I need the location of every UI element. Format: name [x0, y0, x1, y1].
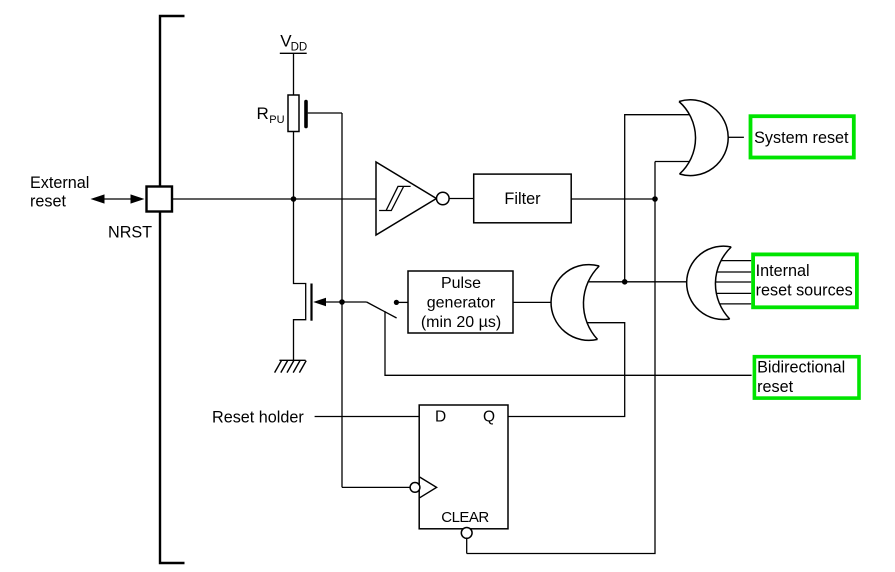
schmitt trigger U1 — [376, 162, 449, 235]
wire pulse or output to pulse generator — [513, 301, 551, 303]
label External reset — [30, 174, 89, 210]
svg-text:NRST: NRST — [108, 224, 152, 242]
wire NRST main horizontal — [172, 198, 376, 200]
or-gate U4 pulse — [551, 265, 599, 341]
junction NRST-RPU — [291, 196, 297, 202]
wire pivot to pulse generator — [396, 301, 408, 303]
wire or1 bottom input — [655, 161, 690, 163]
junction filter node — [652, 196, 658, 202]
resistor RPU — [288, 95, 299, 132]
bidirectional arrow — [91, 194, 145, 203]
wire pulse or input2 from Q — [508, 323, 625, 417]
svg-text:PU: PU — [269, 114, 284, 126]
green box System reset — [751, 116, 854, 157]
wire RPU bottom to NRST node — [293, 132, 295, 200]
chip boundary bracket — [160, 16, 185, 563]
clear bubble — [461, 528, 472, 539]
svg-text:R: R — [257, 104, 269, 123]
filter box — [474, 174, 572, 223]
clock wedge — [420, 477, 437, 498]
junction gate net — [339, 299, 345, 305]
pulse generator box — [408, 271, 513, 333]
switch SW1 blade — [367, 302, 397, 318]
power VDD — [280, 32, 307, 54]
wire or1 output — [728, 136, 744, 138]
svg-text:reset: reset — [757, 378, 793, 396]
wire schmitt to filter — [449, 198, 474, 200]
svg-text:(min 20 µs): (min 20 µs) — [421, 314, 501, 331]
svg-text:Filter: Filter — [504, 190, 541, 208]
clock bubble — [410, 483, 420, 493]
flip-flop U5 — [419, 405, 508, 529]
wire filter to node — [571, 198, 655, 200]
green box Internal reset sources — [753, 254, 857, 307]
wire reset holder to D — [315, 416, 420, 418]
svg-text:CLEAR: CLEAR — [441, 509, 489, 526]
or-gate U2 system reset — [679, 100, 728, 176]
svg-text:D: D — [435, 409, 446, 426]
switch pivot dot — [394, 300, 399, 305]
wire or1 top input — [625, 115, 690, 282]
svg-text:reset sources: reset sources — [756, 282, 853, 300]
or-gate U3 internal sources — [687, 246, 732, 319]
ground — [275, 360, 307, 372]
svg-text:Bidirectional: Bidirectional — [757, 358, 845, 376]
svg-text:Q: Q — [483, 409, 495, 426]
wire long vertical tap to clock — [341, 113, 343, 487]
svg-text:System reset: System reset — [754, 129, 849, 147]
wire clear bubble to bottom — [466, 538, 468, 553]
NRST pad — [147, 187, 173, 212]
green box Bidirectional reset — [754, 357, 859, 398]
svg-text:DD: DD — [291, 42, 308, 54]
svg-text:reset: reset — [30, 192, 66, 210]
junction or net — [622, 279, 628, 285]
svg-text:Reset holder: Reset holder — [212, 408, 304, 426]
wire VDD to RPU — [293, 53, 295, 95]
label RPU — [257, 104, 285, 126]
wire tap bar to vertical — [308, 112, 342, 114]
transistor Q1 NMOS — [294, 199, 367, 360]
wire switch control to bidirectional — [385, 311, 752, 375]
svg-text:Pulse: Pulse — [441, 275, 481, 292]
wire node down to clear — [467, 162, 655, 554]
wire internal or output to pulse or — [588, 281, 687, 283]
wire clock input — [342, 486, 410, 488]
internal source input wires — [716, 261, 752, 304]
svg-text:Internal: Internal — [756, 262, 810, 280]
RPU tap bar — [304, 102, 308, 127]
svg-text:External: External — [30, 174, 89, 192]
svg-text:generator: generator — [427, 295, 496, 312]
